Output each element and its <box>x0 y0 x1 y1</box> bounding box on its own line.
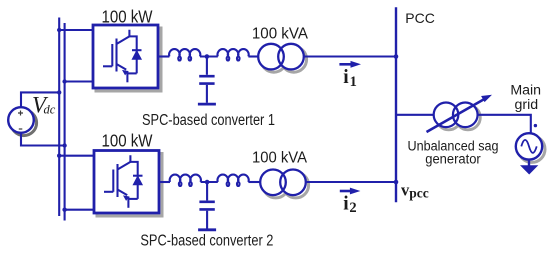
capacitor C2 end bar <box>198 228 216 231</box>
svg-text:i: i <box>343 67 349 88</box>
junction on right rail <box>62 208 66 212</box>
junction on left rail <box>57 154 61 158</box>
inductor L1a <box>169 49 200 60</box>
ac source down lead <box>528 160 530 166</box>
svg-text:100 kW: 100 kW <box>102 131 153 151</box>
svg-text:SPC-based converter 2: SPC-based converter 2 <box>140 233 273 250</box>
wire: converter1 DC+ input <box>59 29 93 31</box>
svg-text:dc: dc <box>44 102 56 116</box>
junction: filter cap node 1 <box>205 54 210 59</box>
ac source (main grid) <box>516 133 542 159</box>
wire: Vdc + to left rail <box>21 92 59 107</box>
dc source Vdc shadow <box>11 110 37 136</box>
current arrow i2 <box>340 190 353 193</box>
junction: branch2 on PCC bus <box>394 180 399 185</box>
wire: T1 to PCC bus <box>304 55 396 57</box>
svg-text:100 kW: 100 kW <box>102 7 153 27</box>
capacitor C2 plates <box>199 202 214 210</box>
ground arrow (down triangle) <box>520 165 538 174</box>
wire: T2 to PCC bus <box>306 181 396 183</box>
junction on left rail <box>57 28 61 32</box>
sag generator arrow <box>427 99 485 132</box>
dc source Vdc <box>8 107 34 133</box>
transformer T1 (100 kVA) <box>258 44 306 72</box>
wire: converter1 output to filter <box>158 55 169 57</box>
IGBT U2 inside converter2 <box>104 155 143 208</box>
wire: PCC to sag generator <box>396 114 434 116</box>
capacitor C1 lead <box>206 57 208 75</box>
wire: converter2 DC+ input <box>59 155 94 157</box>
svg-text:grid: grid <box>514 97 538 113</box>
capacitor C1 plates <box>199 76 214 83</box>
svg-text:i: i <box>343 193 349 214</box>
converter2 box shadow <box>97 154 162 217</box>
junction: Vdc- on right rail <box>62 143 66 147</box>
wire <box>200 55 218 57</box>
svg-text:100 kVA: 100 kVA <box>252 26 308 43</box>
wire <box>201 181 218 183</box>
svg-text:PCC: PCC <box>405 10 435 26</box>
svg-text:SPC-based converter 1: SPC-based converter 1 <box>142 112 275 129</box>
converter2 box <box>94 151 159 214</box>
wire: converter2 DC- input <box>65 209 94 211</box>
capacitor C1 end bar <box>198 103 216 106</box>
converter1 box <box>93 25 158 88</box>
terminal dot near grid source <box>534 124 537 127</box>
svg-text:100 kVA: 100 kVA <box>252 150 307 167</box>
junction: branch1 on PCC bus <box>394 54 399 59</box>
unbalanced sag generator (variable transformer) <box>434 102 481 129</box>
junction: filter cap node 2 <box>205 180 210 185</box>
converter1 box shadow <box>96 28 161 91</box>
wire: converter2 output to filter <box>159 181 170 183</box>
svg-text:generator: generator <box>425 152 481 168</box>
wire to transformer T1 <box>248 55 258 57</box>
current arrow i1 <box>339 63 352 66</box>
svg-text:pcc: pcc <box>409 186 429 201</box>
capacitor C2 lead <box>206 182 208 200</box>
transformer T2 (100 kVA) <box>260 170 308 198</box>
junction: Vdc+ on left rail <box>57 90 61 94</box>
capacitor C1 bottom lead <box>206 85 208 103</box>
wire: sag generator to grid source <box>478 115 531 134</box>
inductor L1b <box>218 49 249 60</box>
wire: DC bus right rail (-) <box>64 23 66 221</box>
svg-text:2: 2 <box>349 200 356 216</box>
inductor L2b <box>218 175 249 186</box>
sine wave inside ac source <box>521 140 536 153</box>
ac source shadow <box>519 136 545 162</box>
wire: Vdc - to right rail <box>21 133 65 146</box>
wire: DC bus left rail (+) <box>58 18 60 217</box>
wire: converter1 DC- input <box>65 80 93 82</box>
IGBT U1 inside converter1 <box>103 30 142 83</box>
capacitor C2 bottom lead <box>206 211 208 229</box>
junction on right rail <box>62 79 66 83</box>
Vdc plus sign <box>18 111 23 116</box>
svg-text:1: 1 <box>350 74 357 90</box>
PCC bus <box>395 7 397 202</box>
inductor L2a <box>170 175 201 186</box>
wire to transformer T2 <box>248 181 260 183</box>
Vdc minus sign <box>19 128 23 130</box>
